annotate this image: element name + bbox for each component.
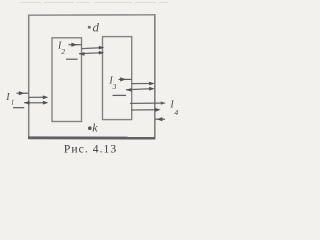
winding w3 lead arrow (current I3 in): [119, 77, 132, 81]
core outer bottom edge: [28, 136, 155, 139]
node d dot: [88, 26, 91, 29]
left window: [52, 38, 82, 122]
svg-text:I: I: [5, 92, 10, 103]
winding w3 lower lead: [113, 94, 127, 96]
core outer left edge: [28, 15, 30, 138]
right window: [103, 37, 132, 120]
winding w2 lead arrow (current I2 in): [69, 43, 82, 47]
node k dot: [88, 126, 92, 130]
svg-text:1: 1: [11, 100, 14, 107]
winding w2 lower lead: [66, 58, 78, 60]
svg-text:3: 3: [112, 82, 117, 91]
winding w4 lead arrow (current I4): [155, 117, 165, 121]
winding w1 lead arrow (current I1 in): [17, 91, 29, 95]
winding w4 turn line a: [130, 101, 166, 104]
winding w4 turn line b: [131, 108, 161, 112]
winding w3 turn line a: [132, 82, 155, 86]
svg-text:4: 4: [174, 108, 178, 117]
core outer right edge: [154, 14, 156, 137]
winding w2 turn line a: [82, 46, 105, 50]
winding w2 turn line b: [79, 51, 104, 56]
winding w3 turn line b: [126, 87, 155, 92]
svg-text:Рис. 4.13: Рис. 4.13: [64, 143, 117, 156]
svg-text:d: d: [93, 20, 100, 35]
svg-text:2: 2: [61, 47, 65, 56]
winding w1 lower lead: [13, 107, 24, 109]
winding w1 turn line a: [29, 95, 49, 99]
winding w1 turn line b: [24, 101, 48, 105]
core outer top edge: [28, 14, 155, 16]
svg-text:k: k: [92, 121, 98, 135]
faint scan line top: [20, 2, 168, 4]
